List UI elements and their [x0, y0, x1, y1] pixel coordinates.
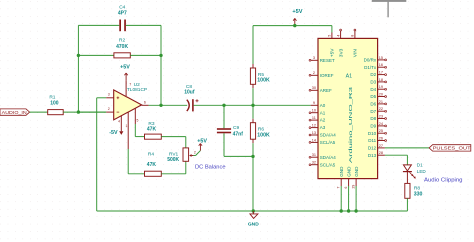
- svg-text:15: 15: [379, 56, 383, 60]
- wire D13 to LED: [385, 155, 408, 165]
- pin AREF (30) of A1: [309, 86, 332, 93]
- svg-text:4: 4: [118, 120, 120, 124]
- svg-text:100K: 100K: [257, 78, 270, 84]
- pin D7 (22) of A1: [370, 107, 386, 114]
- svg-text:47nf: 47nf: [233, 131, 244, 137]
- svg-text:GND: GND: [248, 222, 259, 228]
- svg-text:D4: D4: [370, 87, 376, 92]
- svg-text:GND: GND: [339, 166, 344, 177]
- junction +5V rail: [293, 24, 296, 27]
- svg-text:8: 8: [351, 35, 355, 37]
- junction R6 C9 bottom: [251, 155, 254, 158]
- svg-text:D2: D2: [370, 72, 376, 77]
- pin D9 (24) of A1: [370, 122, 386, 129]
- svg-text:2: 2: [108, 107, 110, 111]
- svg-text:100K: 100K: [257, 132, 270, 138]
- pin A1 (10) of A1: [309, 109, 326, 116]
- wire pin5 to R3: [135, 124, 144, 137]
- svg-text:AUDIO_IN: AUDIO_IN: [2, 110, 27, 116]
- svg-text:1: 1: [126, 124, 128, 128]
- op-amp plus mark: [117, 97, 120, 100]
- svg-text:330: 330: [414, 192, 423, 198]
- pin GND (6) of A1: [344, 166, 352, 213]
- svg-text:PULSES_OUT: PULSES_OUT: [433, 146, 471, 151]
- wire R6 bottom: [252, 143, 254, 156]
- wire R4 to RV1 bottom: [161, 161, 186, 174]
- pin A0 (9) of A1: [311, 101, 326, 108]
- wire feedback top left: [78, 24, 119, 26]
- svg-text:3: 3: [313, 56, 315, 60]
- pin SCL/A5 (32) of A1: [309, 161, 336, 168]
- svg-text:D12: D12: [368, 146, 377, 151]
- svg-text:D7: D7: [370, 109, 376, 114]
- svg-text:20: 20: [379, 92, 383, 96]
- svg-text:VIN: VIN: [353, 49, 359, 58]
- wire RV1 wiper to +5V: [193, 151, 200, 156]
- pin D12 (27) of A1: [368, 144, 385, 151]
- svg-text:SDA/A4: SDA/A4: [320, 133, 337, 138]
- svg-text:-5V: -5V: [109, 130, 118, 136]
- pin +5V (5) of A1: [328, 33, 336, 58]
- wire R5 bottom to node: [252, 88, 254, 105]
- svg-text:R2: R2: [119, 38, 125, 44]
- global label PULSES_OUT: [429, 145, 471, 151]
- svg-text:D0/Rx: D0/Rx: [364, 58, 377, 63]
- wire AUDIO_IN to R1: [30, 111, 48, 113]
- capacitor C9: [217, 105, 243, 137]
- svg-text:26: 26: [379, 136, 383, 140]
- wire D12 to PULSES_OUT: [385, 147, 429, 149]
- svg-text:100: 100: [50, 100, 59, 106]
- pin D4 (19) of A1: [370, 85, 386, 92]
- wire R8 to ground rail: [406, 198, 408, 211]
- svg-text:28: 28: [379, 151, 383, 155]
- global label AUDIO_IN: [0, 109, 30, 116]
- svg-text:29: 29: [351, 185, 355, 189]
- wire R2 row right: [130, 54, 161, 56]
- pin D3 (18) of A1: [370, 78, 386, 85]
- svg-text:13: 13: [312, 131, 316, 135]
- svg-text:D10: D10: [368, 131, 377, 136]
- wire pin2 from junction: [78, 111, 106, 113]
- svg-text:23: 23: [379, 114, 383, 118]
- junction GND symbol: [252, 209, 255, 212]
- gray bar artifact: [372, 0, 407, 17]
- svg-text:7: 7: [129, 82, 131, 86]
- svg-text:IOREF: IOREF: [320, 73, 334, 78]
- capacitor C8: [184, 84, 198, 112]
- svg-text:GND: GND: [354, 166, 359, 177]
- pin D13 (28) of A1: [368, 151, 385, 158]
- svg-text:12: 12: [312, 124, 316, 128]
- svg-text:SCL/A5: SCL/A5: [320, 162, 336, 167]
- svg-text:7: 7: [337, 187, 341, 189]
- svg-text:25: 25: [379, 129, 383, 133]
- resistor R4: [145, 152, 162, 177]
- pin SCL/A5 (14) of A1: [309, 138, 336, 145]
- svg-text:32: 32: [312, 161, 316, 165]
- power +5V at U2: [120, 65, 130, 81]
- svg-text:+5V: +5V: [330, 48, 336, 57]
- svg-text:500K: 500K: [167, 157, 179, 163]
- power -5V at U2: [109, 130, 123, 136]
- svg-text:4P7: 4P7: [118, 11, 127, 17]
- svg-text:D11: D11: [368, 138, 376, 143]
- wire R3 to RV1 top: [161, 137, 186, 148]
- wire pin3 down to ground rail: [96, 98, 98, 211]
- svg-text:18: 18: [379, 78, 383, 82]
- svg-text:10: 10: [312, 109, 316, 113]
- svg-text:SCL/A5: SCL/A5: [320, 140, 336, 145]
- wire pin1 to R4: [128, 149, 144, 174]
- svg-text:10uf: 10uf: [184, 90, 195, 96]
- svg-text:R8: R8: [414, 185, 420, 191]
- resistor R6: [250, 119, 270, 144]
- pin A3 (12) of A1: [309, 124, 326, 131]
- pin 2 of RV1 label: [194, 150, 196, 154]
- svg-text:R1: R1: [49, 94, 55, 100]
- svg-text:6: 6: [144, 101, 146, 105]
- wire C9 bottom: [224, 133, 253, 156]
- svg-text:D1/Tx: D1/Tx: [364, 65, 377, 70]
- svg-text:4: 4: [336, 35, 340, 37]
- pin 6 of U2: [142, 101, 149, 106]
- svg-text:D1: D1: [417, 163, 423, 168]
- pin D11 (26) of A1: [368, 136, 386, 143]
- pin RESET (3) of A1: [309, 56, 335, 63]
- svg-text:17: 17: [379, 71, 383, 75]
- svg-text:A0: A0: [320, 103, 326, 108]
- wire feedback top right: [126, 24, 161, 26]
- svg-text:A1: A1: [320, 110, 326, 115]
- svg-text:GND: GND: [346, 166, 351, 177]
- svg-text:C4: C4: [119, 4, 125, 10]
- pin 5 of U2: [135, 108, 138, 124]
- wire LED to R8: [406, 172, 408, 184]
- wire R2 row left: [78, 54, 114, 56]
- pin 3 of U2: [106, 93, 114, 98]
- svg-text:19: 19: [379, 85, 383, 89]
- junction input node: [77, 110, 80, 113]
- wire down to ground rail: [252, 156, 254, 211]
- svg-text:+5V: +5V: [120, 65, 130, 71]
- wire rail down to 5V pin: [331, 26, 333, 33]
- svg-text:A1: A1: [346, 74, 353, 80]
- svg-text:A3: A3: [320, 125, 326, 130]
- wire C8 to A0: [194, 104, 311, 106]
- op-amp U2: [114, 82, 147, 120]
- pin D2 (17) of A1: [370, 71, 386, 78]
- wire output to C8: [149, 104, 188, 106]
- svg-text:11: 11: [312, 116, 316, 120]
- wire node to R6: [252, 105, 254, 118]
- svg-text:AREF: AREF: [320, 88, 332, 93]
- ground symbol: [248, 211, 259, 228]
- svg-text:47K: 47K: [147, 162, 157, 168]
- pin 7 of U2: [126, 80, 131, 96]
- svg-text:+5V: +5V: [292, 9, 302, 15]
- svg-text:24: 24: [379, 122, 383, 126]
- pin GND (29) of A1: [351, 166, 359, 213]
- svg-text:47K: 47K: [147, 127, 157, 133]
- power +5V at rail: [292, 9, 302, 26]
- svg-text:C9: C9: [233, 125, 239, 131]
- pin A2 (11) of A1: [309, 116, 326, 123]
- svg-text:3V3: 3V3: [338, 48, 344, 57]
- pin VIN (8) of A1: [351, 29, 359, 57]
- junction C9 top: [222, 104, 225, 107]
- svg-text:5: 5: [137, 119, 139, 123]
- svg-text:5: 5: [328, 35, 332, 37]
- svg-text:D5: D5: [370, 94, 376, 99]
- svg-text:R4: R4: [148, 152, 154, 158]
- text DC Balance: [195, 164, 226, 170]
- pin SDA/A4 (31) of A1: [309, 153, 336, 160]
- svg-text:D9: D9: [370, 124, 376, 129]
- svg-text:30: 30: [312, 86, 316, 90]
- svg-text:3: 3: [108, 93, 110, 97]
- svg-text:2: 2: [313, 71, 315, 75]
- power +5V at RV1: [197, 138, 207, 150]
- LED D1: [403, 163, 427, 179]
- pin SDA/A4 (13) of A1: [309, 131, 336, 138]
- junction R5 R6 node: [251, 104, 254, 107]
- pin D0/Rx (15) of A1: [364, 56, 387, 63]
- svg-text:Audio Clipping: Audio Clipping: [424, 178, 463, 184]
- svg-text:21: 21: [379, 100, 383, 104]
- resistor R1: [48, 94, 64, 114]
- resistor R5: [250, 64, 270, 88]
- pin D8 (23) of A1: [370, 114, 386, 121]
- svg-text:A2: A2: [320, 118, 326, 123]
- svg-text:14: 14: [312, 138, 316, 142]
- pin 3V3 (4) of A1: [336, 29, 344, 57]
- text Audio Clipping: [424, 178, 463, 184]
- svg-text:SDA/A4: SDA/A4: [320, 155, 337, 160]
- wire R1 to junction: [63, 111, 106, 113]
- svg-text:6: 6: [344, 187, 348, 189]
- svg-text:2: 2: [194, 150, 196, 154]
- pin 4 of U2: [118, 116, 121, 131]
- svg-text:Arduino_UNO_R3: Arduino_UNO_R3: [348, 86, 353, 163]
- svg-text:TL081CP: TL081CP: [127, 87, 147, 93]
- resistor R8: [405, 183, 423, 198]
- svg-text:D6: D6: [370, 102, 376, 107]
- svg-text:+5V: +5V: [197, 138, 207, 144]
- svg-text:31: 31: [312, 153, 316, 157]
- resistor R3: [145, 121, 162, 139]
- svg-text:470K: 470K: [116, 44, 128, 50]
- pin IOREF (2) of A1: [309, 71, 334, 78]
- junction output node: [159, 104, 162, 107]
- pin D5 (20) of A1: [370, 92, 386, 99]
- resistor R2: [114, 38, 130, 58]
- svg-text:16: 16: [379, 63, 383, 67]
- pin 2 of U2: [106, 107, 114, 112]
- wire R5 top to +5V rail: [253, 26, 332, 64]
- wire ground rail: [97, 210, 408, 212]
- svg-text:DC Balance: DC Balance: [195, 164, 226, 170]
- junction R2 right: [159, 54, 162, 57]
- pin D10 (25) of A1: [368, 129, 387, 136]
- op-amp minus mark: [117, 111, 120, 113]
- svg-text:27: 27: [379, 144, 383, 148]
- pin 1 of U2: [126, 112, 129, 149]
- pin D6 (21) of A1: [370, 100, 386, 107]
- svg-text:22: 22: [379, 107, 383, 111]
- capacitor C4: [118, 4, 127, 31]
- svg-text:RESET: RESET: [320, 58, 335, 63]
- svg-text:D3: D3: [370, 80, 376, 85]
- pin D1/Tx (16) of A1: [364, 63, 386, 70]
- pin GND (7) of A1: [337, 166, 345, 213]
- svg-text:LED: LED: [417, 169, 427, 174]
- wire feedback left vertical: [77, 25, 79, 112]
- svg-text:D13: D13: [368, 153, 377, 158]
- svg-text:9: 9: [313, 101, 315, 105]
- Arduino UNO module A1 body: [318, 38, 378, 178]
- wire pin3 horizontal: [97, 97, 107, 99]
- junction R2 left: [77, 54, 80, 57]
- svg-text:D8: D8: [370, 116, 376, 121]
- potentiometer RV1: [167, 148, 193, 163]
- wire feedback right vertical: [160, 25, 162, 105]
